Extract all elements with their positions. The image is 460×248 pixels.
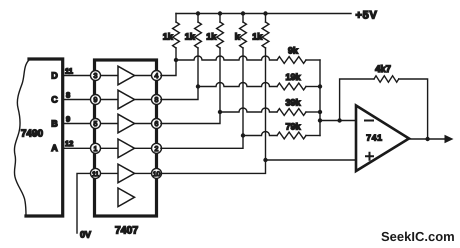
buffer 4 input wire — [100, 147, 119, 149]
feedback wire left vertical — [340, 79, 374, 121]
svg-text:6: 6 — [155, 121, 159, 128]
svg-text:5: 5 — [94, 121, 98, 128]
svg-text:3: 3 — [94, 73, 98, 80]
buffer 5 output wire — [135, 172, 153, 174]
op-amp U2 741 — [356, 106, 409, 172]
pin 3 — [91, 71, 101, 81]
svg-text:1k: 1k — [185, 32, 196, 42]
svg-text:A: A — [51, 143, 58, 153]
svg-text:8: 8 — [66, 91, 70, 100]
svg-text:9: 9 — [66, 115, 70, 124]
wire row 1 with hops — [176, 56, 277, 60]
IC 7490 box — [14, 59, 62, 216]
buffer U1f unused — [118, 188, 135, 207]
svg-text:1: 1 — [94, 146, 98, 153]
summing dot row3 — [318, 110, 322, 114]
svg-text:7490: 7490 — [21, 129, 44, 140]
wire pin4 to node row1 — [161, 60, 176, 76]
svg-text:SeekIC.com: SeekIC.com — [381, 229, 455, 244]
node row3 junction dot — [218, 110, 222, 114]
wire row2 to summing vertical — [306, 86, 320, 88]
buffer 3 output wire — [135, 123, 153, 125]
svg-text:C: C — [51, 95, 58, 105]
wire 7490 B to pin 5 — [64, 123, 91, 125]
pin 2 — [152, 143, 162, 153]
wire pin2 to node row4 — [161, 136, 243, 149]
buffer U1b — [118, 90, 135, 109]
buffer 2 input wire — [100, 99, 119, 101]
wire + input line — [266, 159, 357, 161]
svg-text:2: 2 — [155, 146, 159, 153]
summing vertical wire — [319, 60, 321, 136]
buffer 1 output wire — [135, 75, 153, 77]
feedback junction dot — [337, 118, 341, 122]
wire row 3 with hops — [220, 108, 277, 112]
svg-text:B: B — [51, 119, 58, 129]
wire row 2 with hops — [198, 83, 277, 87]
resistor R3 1k pull-up — [217, 14, 224, 113]
+5V supply rail — [176, 13, 351, 15]
node +input junction dot — [263, 158, 267, 162]
wire pin10 to op-amp + input — [161, 160, 266, 173]
resistor R2 1k pull-up — [195, 14, 202, 88]
wire 0V to pin 11 — [77, 173, 91, 233]
svg-text:1k: 1k — [206, 32, 217, 42]
resistor R5 1k pull-up — [262, 14, 269, 161]
svg-text:9: 9 — [94, 97, 98, 104]
resistor R6 4k7 feedback — [374, 76, 399, 82]
wire row1 to summing vertical — [306, 59, 320, 61]
svg-text:79k: 79k — [285, 122, 301, 132]
summing dot row2 — [318, 84, 322, 88]
pin 4 — [152, 71, 162, 81]
wire row 4 with hop — [243, 132, 277, 136]
buffer U1a — [118, 66, 135, 85]
output junction dot — [425, 137, 429, 141]
node row4 junction dot — [241, 133, 245, 137]
buffer 3 input wire — [100, 123, 119, 125]
resistor 9k — [277, 57, 306, 64]
svg-text:12: 12 — [65, 139, 73, 148]
torn wavy left edge of 7490 — [14, 60, 29, 216]
pin 1 — [91, 143, 101, 153]
resistor 19k — [277, 83, 306, 90]
wire 7490 D to pin 3 — [64, 75, 91, 77]
pin 5 — [91, 119, 101, 129]
pin 6 — [152, 119, 162, 129]
IC 7407 box — [95, 60, 157, 216]
wire 7490 C to pin 9 — [64, 99, 91, 101]
resistor 39k — [277, 109, 306, 116]
pin 11 — [91, 168, 101, 178]
pin 9 — [91, 95, 101, 105]
svg-text:8: 8 — [155, 97, 159, 104]
rail junction dots — [196, 11, 200, 15]
wire row4 to summing vertical — [306, 135, 320, 137]
pin 10 — [152, 168, 162, 178]
buffer U1e — [118, 164, 135, 183]
svg-text:9k: 9k — [288, 46, 299, 56]
svg-text:1k: 1k — [163, 32, 174, 42]
pin 8 — [152, 95, 162, 105]
buffer U1d — [118, 139, 135, 158]
svg-text:+5V: +5V — [356, 9, 378, 21]
buffer 1 input wire — [100, 75, 119, 77]
minus symbol — [365, 120, 373, 122]
svg-text:11: 11 — [65, 67, 73, 76]
node row1 junction dot — [174, 58, 178, 62]
buffer 5 input wire — [100, 172, 119, 174]
svg-text:D: D — [51, 71, 58, 81]
svg-text:1k: 1k — [252, 32, 263, 42]
buffer U1c — [118, 114, 135, 133]
svg-text:39k: 39k — [285, 98, 301, 108]
svg-text:4k7: 4k7 — [375, 64, 391, 75]
svg-text:11: 11 — [92, 171, 99, 178]
wire pin6 to node row3 — [161, 112, 220, 124]
buffer 4 output wire — [135, 147, 153, 149]
feedback wire right vertical — [399, 79, 428, 139]
svg-text:7407: 7407 — [115, 225, 139, 237]
svg-text:0V: 0V — [80, 230, 91, 240]
resistor R1 1k pull-up — [173, 14, 180, 61]
summing dot -input — [318, 118, 322, 122]
node row2 junction dot — [196, 84, 200, 88]
svg-text:19k: 19k — [285, 72, 301, 82]
wire row3 to summing vertical — [306, 111, 320, 113]
SeekIC.com watermark — [381, 229, 455, 244]
plus symbol — [366, 153, 373, 160]
output arrowhead — [445, 135, 454, 143]
wire 7490 A to pin 1 — [64, 147, 91, 149]
output wire — [409, 138, 446, 140]
wire pin8 to node row2 — [161, 87, 198, 100]
resistor R4 1k pull-up — [240, 14, 247, 136]
buffer 2 output wire — [135, 99, 153, 101]
wire - input line — [320, 120, 356, 122]
resistor 79k — [277, 132, 306, 139]
svg-text:10: 10 — [153, 171, 161, 178]
svg-text:741: 741 — [366, 133, 383, 143]
svg-text:4: 4 — [155, 73, 159, 80]
